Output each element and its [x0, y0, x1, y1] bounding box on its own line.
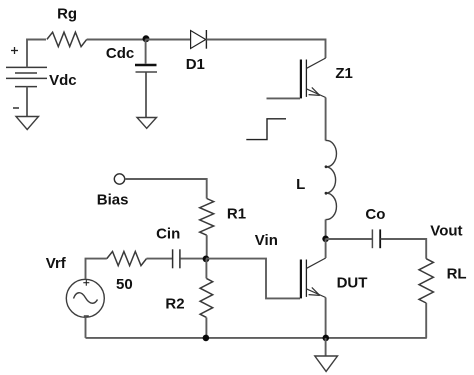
terminal Bias: [114, 174, 124, 184]
wire R1 to Vin node: [206, 235, 208, 258]
svg-text:Co: Co: [365, 206, 385, 223]
battery V source Vdc: [6, 67, 47, 86]
inductor L: [326, 140, 337, 219]
wire Cin to Vin node: [180, 258, 205, 260]
wire Bias to R1: [125, 179, 207, 199]
wire Vin node to DUT gate: [206, 259, 300, 299]
svg-text:Vin: Vin: [255, 232, 278, 249]
wire diode to Z1 drain: [206, 40, 325, 59]
svg-text:Rg: Rg: [57, 6, 77, 23]
resistor 50: [107, 252, 147, 266]
wire node to diode: [145, 39, 190, 41]
capacitor Co: [371, 229, 373, 248]
wire node to Co: [326, 238, 372, 240]
ground (battery): [16, 117, 39, 130]
node junction drain/Co: [322, 236, 329, 243]
capacitor Cin: [173, 249, 180, 268]
capacitor Cdc: [145, 40, 147, 64]
svg-text:L: L: [296, 176, 305, 193]
wire Z1 gate lead: [267, 97, 301, 99]
svg-text:Cdc: Cdc: [106, 45, 134, 62]
svg-text:50: 50: [116, 276, 133, 293]
wire DUT source: [325, 298, 327, 338]
svg-text:RL: RL: [447, 266, 467, 283]
ground (Cdc): [137, 118, 157, 129]
svg-text:Vrf: Vrf: [46, 255, 67, 272]
svg-text:Vout: Vout: [430, 222, 462, 239]
svg-text:R1: R1: [227, 205, 246, 222]
svg-text:Vdc: Vdc: [49, 72, 77, 89]
minus terminal mark: [13, 107, 19, 109]
node junction bottom right: [323, 335, 330, 342]
wire Vrf top lead: [86, 259, 107, 280]
source Vrf: [66, 279, 104, 317]
resistor RL: [419, 259, 433, 303]
svg-text:Z1: Z1: [335, 65, 353, 82]
svg-text:DUT: DUT: [337, 275, 368, 292]
ground (main): [325, 338, 327, 356]
node junction Vin: [203, 256, 210, 263]
node junction bottom left: [203, 335, 210, 342]
plus terminal mark: [11, 47, 18, 54]
wire Z1 source to inductor: [325, 98, 327, 141]
resistor Rg: [47, 32, 87, 46]
transistor Z1: [301, 58, 326, 98]
svg-text:D1: D1: [186, 56, 205, 73]
svg-text:Cin: Cin: [156, 225, 180, 242]
resistor R2: [205, 259, 207, 279]
wire Co to RL corner: [381, 239, 427, 259]
wire bottom rail: [86, 337, 427, 339]
svg-text:R2: R2: [165, 296, 184, 313]
wire Vrf bottom lead: [85, 317, 87, 338]
wire inductor to node: [325, 220, 327, 239]
wire RL bottom: [425, 303, 427, 338]
wire DUT drain: [325, 239, 327, 258]
resistor R1: [200, 199, 214, 236]
transistor DUT: [301, 258, 326, 298]
wire battery top lead: [27, 40, 46, 68]
svg-text:Bias: Bias: [97, 191, 129, 208]
wire battery bottom lead: [26, 87, 28, 117]
node junction Cdc: [143, 35, 150, 42]
gate drive step symbol: [246, 119, 286, 140]
wire R2 bottom: [205, 318, 207, 338]
wire Rg to node: [87, 39, 146, 41]
wire 50 to Cin: [147, 258, 173, 260]
diode D1: [191, 31, 206, 49]
